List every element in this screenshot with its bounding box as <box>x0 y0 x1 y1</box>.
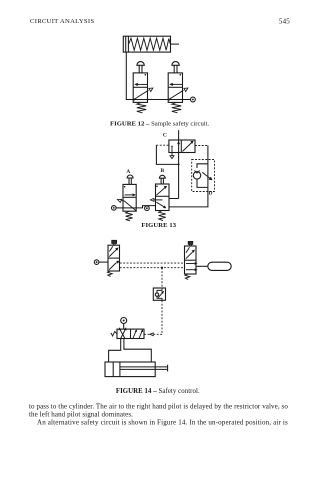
air source for valve B <box>145 206 150 211</box>
svg-text:FIGURE 13: FIGURE 13 <box>141 222 176 229</box>
open arrowhead into main valve pilot <box>150 333 153 336</box>
svg-text:A: A <box>126 169 130 175</box>
flow control valve F (fig 14) <box>153 288 165 300</box>
pilot signal line lower (dashed) <box>120 267 185 269</box>
svg-text:the left hand pilot signal dom: the left hand pilot signal dominates. <box>29 410 133 418</box>
cylinder CYL1 (single-acting, spring return) <box>123 36 170 52</box>
cylinder CYL2 (fig 14) <box>105 362 168 377</box>
svg-text:to pass to the cylinder. The a: to pass to the cylinder. The air to the … <box>29 402 288 410</box>
supply circle for main valve <box>121 318 127 330</box>
pilot line to valve C left side <box>156 145 178 164</box>
svg-text:D: D <box>209 190 213 196</box>
pipe main valve to cylinder rear <box>109 339 121 362</box>
svg-text:B: B <box>160 168 164 174</box>
svg-text:FIGURE 12 – Sample safety circ: FIGURE 12 – Sample safety circuit. <box>110 120 210 127</box>
air reservoir (capsule) <box>208 262 231 270</box>
wire restrictor D to valve B lower port <box>169 192 208 207</box>
wire valve B upper port to valve C supply line <box>169 198 179 200</box>
valve V2 (right push-button 3/2 valve) <box>168 62 188 113</box>
reservoir stub <box>196 265 208 267</box>
wire cylinder to valve V1 <box>126 52 133 99</box>
svg-text:FIGURE 14 – Safety control.: FIGURE 14 – Safety control. <box>116 388 200 395</box>
pipe main valve to cylinder front <box>124 339 151 363</box>
wire source to valve E <box>99 261 108 263</box>
svg-text:An alternative safety circuit: An alternative safety circuit is shown i… <box>37 418 288 426</box>
pilot stub to valve <box>144 333 150 335</box>
wire valve A to valve B <box>136 206 155 208</box>
flow control valve D (restrictor with check bypass) <box>192 160 215 192</box>
main valve (fig 14, 4/2 control valve) <box>111 327 144 338</box>
pilot branch down (dashed) <box>161 268 163 288</box>
supply/output line through valve C <box>178 130 180 198</box>
junction on lower pilot line <box>161 267 163 269</box>
valve V1 (left push-button 3/2 valve) <box>133 62 153 113</box>
pilot tee junction <box>178 163 180 165</box>
valve A (push-button 3/2 valve) <box>117 175 136 221</box>
svg-text:C: C <box>163 133 167 139</box>
wire V2 to air source <box>183 99 191 101</box>
pilot signal line upper (dashed) <box>120 262 185 264</box>
svg-text:CIRCUIT ANALYSIS: CIRCUIT ANALYSIS <box>30 18 94 25</box>
wire source to valve A <box>116 207 123 209</box>
valve G (fig 14 right plunger valve) <box>185 241 198 279</box>
svg-text:545: 545 <box>279 18 290 26</box>
air source (fig 12) <box>191 97 196 102</box>
air source for valve A <box>112 206 117 211</box>
valve B (push-button 3/2 valve) <box>150 175 169 220</box>
wire V1 to V2 <box>148 99 169 101</box>
air source (fig 14 left) <box>94 260 99 265</box>
valve E (fig 14 left plunger valve) <box>108 240 120 276</box>
piston rod CYL1 <box>171 43 180 45</box>
valve C (pilot-operated 3/2 valve) <box>169 140 195 159</box>
pilot line to main valve (dashed, down then left) <box>154 300 162 334</box>
pilot line valve C right to restrictor D <box>195 146 208 160</box>
